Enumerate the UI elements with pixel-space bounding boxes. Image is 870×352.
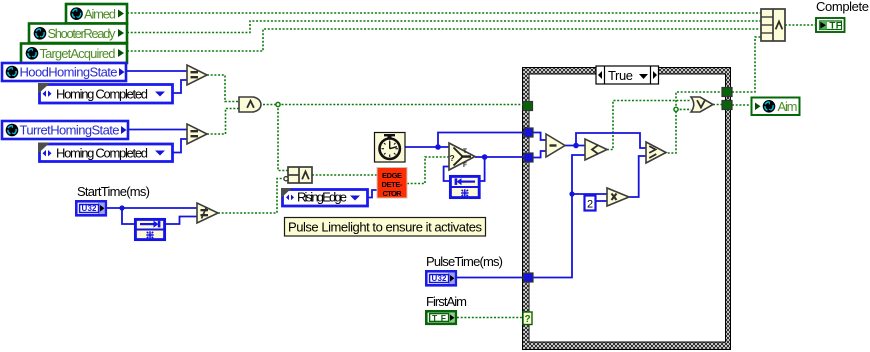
svg-text:FirstAim: FirstAim: [426, 294, 467, 309]
node junction greater-equal output: [674, 107, 678, 111]
node junction clock output: [435, 144, 441, 150]
svg-text:TurretHomingState: TurretHomingState: [20, 123, 120, 138]
wire tunnel2 to Aim global: [732, 104, 751, 106]
wire tunnel1 to compound AND input4: [732, 37, 761, 92]
wire Aimed to compound AND input1 (boolean dotted): [127, 12, 761, 14]
case structure frame (True case): [523, 68, 731, 350]
enum constant Homing Completed 1: [38, 83, 173, 103]
case selector terminal ?: [523, 312, 532, 325]
wire TurretHomingState to equal2: [128, 129, 187, 131]
enum constant Homing Completed 2: [38, 143, 173, 162]
svg-text:StartTime(ms): StartTime(ms): [77, 184, 150, 199]
equal node 1: [187, 65, 207, 85]
wire PulseTime inside case up to less-than bottom input: [533, 155, 585, 278]
wire compound2 output to edge detector: [312, 174, 377, 176]
edge detector subVI: [377, 168, 407, 199]
wire clock branch up to case left tunnelA: [438, 133, 524, 148]
indicator terminal Complete TF: [816, 18, 845, 32]
wire feedback1 output to not-equal bottom input: [166, 217, 197, 225]
tunnel right1 (to Complete AND): [722, 88, 732, 97]
wire select output to case left tunnelB: [475, 156, 524, 158]
svg-text:DETE-: DETE-: [382, 180, 404, 189]
feedback node 2 (left arrow): [450, 176, 479, 197]
wire AND output branch down to compound2 top input: [278, 105, 288, 171]
tunnel left PulseTime: [524, 273, 534, 282]
wire StartTime to not-equal top input: [106, 207, 197, 209]
node junction subtract output: [573, 143, 579, 149]
svg-text:U32: U32: [432, 274, 448, 283]
wire clock output to select t input: [405, 146, 449, 148]
wire OR output to right tunnel2: [713, 104, 722, 106]
wire equal1 output to AND gate input1: [207, 75, 239, 102]
greater-equal node: [646, 142, 666, 163]
tunnel left boolean (AND result): [523, 102, 533, 111]
wire branch to OR gate bottom input: [676, 108, 691, 110]
svg-text:CTOR: CTOR: [383, 189, 403, 198]
svg-text:ShooterReady: ShooterReady: [48, 26, 117, 41]
global read Aimed: [66, 4, 127, 24]
tunnel right2 (Aim out): [722, 101, 732, 110]
svg-text:Pulse Limelight to ensure it a: Pulse Limelight to ensure it activates: [288, 220, 483, 235]
svg-text:Homing Completed: Homing Completed: [56, 145, 148, 160]
svg-text:F: F: [463, 162, 467, 169]
svg-text:TargetAcquired: TargetAcquired: [40, 46, 116, 61]
enum constant RisingEdge: [281, 188, 368, 206]
case selector label "True": [596, 66, 659, 84]
svg-text:2: 2: [587, 199, 593, 211]
wire equal2 output to AND gate input2: [207, 109, 239, 135]
wire enum2 to equal2 bottom input: [173, 139, 187, 153]
control terminal PulseTime U32: [426, 271, 456, 285]
svg-text:?: ?: [525, 314, 531, 325]
svg-text:?: ?: [450, 153, 455, 163]
control terminal StartTime U32: [76, 201, 106, 215]
node junction AND output: [276, 102, 280, 106]
wire HoodHomingState to equal1: [126, 70, 187, 72]
wire less-than output to OR gate top input: [607, 101, 691, 150]
wire tunnelA to subtract top input: [533, 133, 546, 141]
wire FirstAim to case selector: [457, 317, 523, 319]
global write Aim: [752, 98, 800, 116]
svg-text:Aimed: Aimed: [84, 6, 116, 21]
svg-text:RisingEdge: RisingEdge: [297, 190, 347, 205]
svg-text:Homing Completed: Homing Completed: [56, 86, 148, 101]
feedback node 1 (right arrow): [135, 219, 164, 239]
wire multiply output to greater-equal bottom input: [629, 156, 646, 197]
not-equal node: [197, 203, 218, 223]
global read TargetAcquired: [21, 44, 127, 64]
svg-text:PulseTime(ms): PulseTime(ms): [426, 254, 503, 269]
select node: [449, 143, 475, 170]
wire constant2 to multiply bottom input: [595, 200, 607, 202]
svg-text:TF: TF: [830, 21, 842, 32]
tunnel left B (select value): [524, 153, 533, 162]
global read TurretHomingState: [2, 121, 128, 139]
wire PulseTime branch to multiply top input: [572, 193, 607, 195]
global read HoodHomingState: [2, 63, 126, 81]
subtract node: [546, 134, 565, 157]
node junction select output: [482, 154, 488, 160]
constant 2: [585, 196, 596, 211]
svg-text:T: T: [463, 148, 467, 155]
svg-text:Aim: Aim: [778, 99, 798, 114]
wire subtract branch over to greater-equal top input: [576, 133, 646, 148]
wire greater-equal output up to right tunnel1: [664, 92, 722, 153]
wire AND output to case left tunnel: [263, 104, 523, 106]
global read ShooterReady: [29, 24, 127, 44]
compound arithmetic 2-input AND with inverted input: [284, 167, 312, 183]
wire enum1 to equal1 bottom input: [173, 80, 187, 93]
free label Pulse Limelight to ensure it activates: [285, 218, 486, 237]
wire subtract output to less-than top input: [565, 145, 585, 147]
less-than node: [585, 139, 607, 160]
equal node 2: [187, 124, 207, 144]
node junction PulseTime: [569, 191, 574, 196]
svg-text:U32: U32: [82, 204, 98, 213]
node junction StartTime: [119, 205, 124, 210]
wire PulseTime to case tunnel: [457, 277, 523, 279]
wire compound AND output to Complete indicator: [785, 24, 815, 26]
wire StartTime branch to feedback1 input: [122, 208, 134, 224]
wire edge detector output to select s input: [407, 157, 449, 184]
multiply node: [607, 188, 629, 206]
wire not-equal output to compound2 inverted input: [218, 179, 283, 214]
wire RisingEdge enum to edge detector: [368, 190, 377, 198]
wire tunnelB to subtract bottom input: [533, 151, 546, 158]
svg-text:Complete: Complete: [816, 0, 869, 14]
wire ShooterReady to compound AND input2: [127, 21, 761, 33]
compound arithmetic AND 4-input: [761, 9, 785, 41]
svg-text:EDGE: EDGE: [382, 171, 402, 180]
clock node Tick Count (ms): [375, 133, 406, 163]
svg-text:True: True: [608, 68, 633, 83]
wire feedback2 output to select f input: [444, 167, 449, 182]
control terminal FirstAim TF: [426, 311, 456, 324]
wire select output branch down to feedback2 input: [480, 157, 485, 181]
svg-text:HoodHomingState: HoodHomingState: [20, 65, 118, 80]
OR gate: [691, 97, 713, 112]
tunnel left A (clock value): [524, 128, 533, 137]
AND gate: [239, 97, 261, 112]
wire TargetAcquired to compound AND input3: [127, 29, 761, 51]
